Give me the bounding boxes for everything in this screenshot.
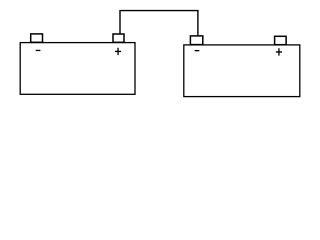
battery B1 negative label -: [36, 50, 41, 51]
battery B1 negative terminal: [31, 34, 43, 42]
battery B2 body: [184, 45, 300, 97]
battery B2 positive terminal: [275, 36, 287, 44]
battery B2 positive label +: [276, 48, 282, 55]
battery B2 negative terminal: [190, 36, 202, 45]
battery B2 negative label -: [195, 50, 200, 51]
battery B1 positive terminal: [113, 34, 124, 42]
battery B1 positive label +: [115, 48, 121, 55]
wire B1 positive to B2 negative: [120, 11, 198, 36]
battery B1 body: [20, 43, 135, 95]
